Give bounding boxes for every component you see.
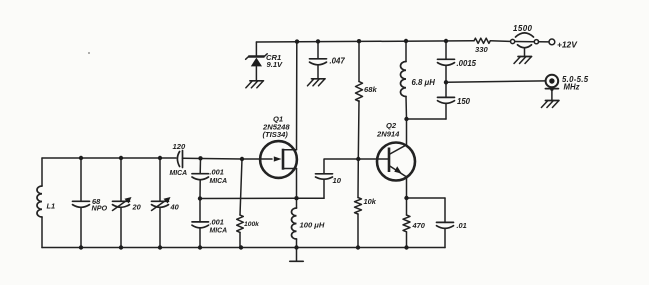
wire collector riser (node) <box>405 118 408 120</box>
svg-text:6.8 μH: 6.8 μH <box>412 78 436 87</box>
capacitor .01 <box>437 198 467 248</box>
svg-text:MICA: MICA <box>210 228 228 235</box>
svg-text:470: 470 <box>412 221 426 230</box>
ground (jack) <box>541 101 559 108</box>
wire Q1 source drop <box>296 169 298 199</box>
wire tank left vertical <box>41 158 43 186</box>
resistor 68k <box>356 41 378 159</box>
ground (.047) <box>308 79 326 86</box>
junction dots middle <box>198 80 448 201</box>
wire bottom rail <box>42 247 445 249</box>
inductor L1 <box>37 186 55 217</box>
capacitor .0015 <box>438 41 477 82</box>
wire source feedback <box>200 197 324 199</box>
junction dots tank top <box>79 156 244 161</box>
junction dots bottom rail <box>79 245 409 249</box>
svg-text:+12V: +12V <box>557 39 578 49</box>
svg-text:10: 10 <box>333 176 342 185</box>
capacitor 10 <box>316 159 358 198</box>
svg-text:1500: 1500 <box>513 24 533 33</box>
terminal +12V <box>549 39 578 49</box>
capacitor .001 MICA (lower) <box>192 199 227 248</box>
svg-text:.001: .001 <box>210 167 224 176</box>
svg-text:2N914: 2N914 <box>376 130 400 139</box>
feedthrough capacitor 1500 <box>510 24 538 56</box>
svg-text:(TIS34): (TIS34) <box>263 130 289 139</box>
svg-text:330: 330 <box>475 45 488 54</box>
svg-text:MHz: MHz <box>564 83 580 92</box>
inductor 6.8uH <box>400 41 435 119</box>
resistor 100k <box>237 159 259 248</box>
wire collector node to 150 <box>407 118 447 120</box>
svg-text:150: 150 <box>457 97 471 106</box>
svg-text:MICA: MICA <box>170 170 188 177</box>
ground (CR1) <box>246 81 264 88</box>
resistor 10k <box>355 159 377 248</box>
speck <box>88 52 90 54</box>
transistor Q2 2N914 <box>358 119 415 198</box>
zener CR1 <box>246 42 283 81</box>
resistor 470 <box>403 198 426 248</box>
resistor 330 <box>474 38 490 54</box>
svg-text:100 μH: 100 μH <box>300 221 325 230</box>
junction dots top rail <box>295 39 448 44</box>
capacitor 150 <box>438 82 471 119</box>
svg-text:.01: .01 <box>457 221 467 230</box>
svg-text:20: 20 <box>132 203 142 212</box>
wire tank top <box>42 157 176 159</box>
svg-text:10k: 10k <box>364 197 377 206</box>
svg-text:9.1V: 9.1V <box>267 60 284 69</box>
ground (feedthrough) <box>514 57 532 64</box>
svg-text:120: 120 <box>173 142 186 151</box>
svg-text:40: 40 <box>170 203 180 212</box>
wire output tap <box>446 81 546 82</box>
svg-text:MICA: MICA <box>210 178 228 185</box>
variable capacitor 40 <box>152 158 180 248</box>
svg-text:.001: .001 <box>210 217 224 226</box>
capacitor 68 NPO <box>73 158 108 248</box>
transistor Q1 2N5248 <box>242 115 297 178</box>
svg-text:NPO: NPO <box>92 203 108 212</box>
capacitor .001 MICA (upper) <box>192 158 227 198</box>
svg-text:L1: L1 <box>47 202 56 211</box>
capacitor 120 MICA (series) <box>170 142 243 177</box>
inductor 100uH <box>291 198 324 247</box>
wire top rail <box>256 41 549 42</box>
wire Q1 drain riser <box>296 42 298 150</box>
svg-text:68k: 68k <box>364 85 377 94</box>
svg-text:100k: 100k <box>244 221 259 228</box>
svg-text:.0015: .0015 <box>457 59 477 68</box>
variable capacitor 20 <box>113 158 142 248</box>
ground (bottom rail) <box>290 248 303 262</box>
wire emitter to .01 <box>407 197 446 199</box>
capacitor .047 <box>310 41 346 79</box>
coax jack 5.0-5.5 MHz <box>545 75 588 101</box>
svg-text:.047: .047 <box>330 57 346 66</box>
